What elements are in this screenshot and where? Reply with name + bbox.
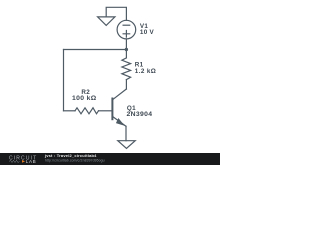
svg-text:2N3904: 2N3904: [127, 111, 153, 118]
svg-text:1.2 kΩ: 1.2 kΩ: [135, 68, 156, 75]
svg-text:10 V: 10 V: [140, 29, 155, 36]
svg-text:100 kΩ: 100 kΩ: [72, 95, 97, 102]
svg-text:LAB: LAB: [26, 159, 36, 164]
svg-text:jvst : Travel2_circuitlab4: jvst : Travel2_circuitlab4: [44, 153, 97, 158]
svg-text:http://circuitlab.com/c/2n8397: http://circuitlab.com/c/2n8397d95ogu: [45, 159, 105, 163]
